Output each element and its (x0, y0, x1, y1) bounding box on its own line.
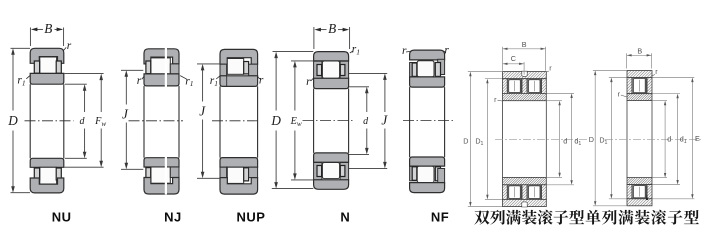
bearing NF top inner-ring flange left (410, 63, 417, 77)
bearing NF top roller (417, 61, 434, 77)
bearing NU bore line right (63, 84, 65, 158)
bearing N bottom cage mark left (317, 166, 322, 177)
leader r (NU) (63, 47, 66, 50)
bearing SL-double top outer ring (503, 72, 547, 79)
bearing NF top cage bar right (435, 63, 440, 77)
dimension d line (SL-single) (664, 104, 666, 175)
bearing N top outer ring (314, 52, 349, 61)
dimension D extension top (NU) (11, 47, 31, 49)
leader r left (SL-single) (621, 95, 627, 97)
bearing NJ bottom roller (151, 167, 170, 183)
bearing NF bottom inner ring (410, 157, 445, 166)
bearing NU bottom cage bar left (34, 168, 39, 180)
bearing NJ bottom cage bar left (146, 168, 151, 180)
bearing N bore line right (348, 89, 350, 153)
leader r (NJ) (142, 76, 145, 79)
dimension C line (SL-double) (503, 63, 525, 65)
dimension D line (N) (275, 56, 277, 110)
caption double-row full-complement roller type (Chinese) (474, 210, 489, 224)
oil groove notch top (SL-double) (522, 71, 527, 76)
bearing N bore line left (313, 89, 315, 153)
bearing SL-double bottom roller 2 pocket (527, 185, 542, 200)
dimension B line with arrows (NU) (37, 28, 44, 30)
bearing NJ top roller (151, 58, 170, 74)
bearing SL-double top roller 2 pocket (527, 79, 542, 94)
bearing SL-double bottom roller 1 roller (509, 186, 521, 199)
bearing SL-double bottom roller 2 roller axis line (533, 187, 535, 197)
svg-text:N: N (340, 210, 350, 225)
bearing NF bottom outer-ring flange right (438, 169, 445, 184)
dimension J extension bottom (NJ) (121, 168, 143, 170)
leader r1 (NUP) (216, 76, 219, 79)
bearing NJ top inner ring (144, 74, 179, 86)
bearing NJ top inner-ring flange right (170, 64, 179, 74)
bearing N bottom cage mark right (340, 166, 345, 177)
dimension d1 extensions (SL-single) (653, 93, 680, 95)
bearing SL-double top roller 1 roller (509, 80, 521, 93)
bearing SL-single top inner ring (627, 94, 652, 101)
bearing NF top outer ring (410, 50, 445, 60)
bearing NF bottom cage bar right (435, 167, 440, 181)
bearing NUP bottom roller (227, 167, 243, 183)
bearing SL-single bottom outer flange right (647, 185, 652, 199)
oil groove notch bottom (SL-double) (522, 202, 527, 207)
svg-text:r: r (137, 75, 142, 87)
dimension J line (NJ) (125, 75, 127, 105)
bearing NF top inner ring (410, 77, 445, 87)
bearing NUP top roller (227, 59, 243, 75)
svg-text:NJ: NJ (164, 210, 182, 225)
bearing SL-double top outer flange right (542, 79, 547, 94)
bearing SL-single top roller roller axis line (639, 80, 641, 92)
dimension D1 extensions (SL-double) (485, 78, 502, 80)
bearing SL-single bottom roller roller axis line (639, 187, 641, 197)
bearing N bottom inner-ring flange left (314, 163, 322, 180)
bearing NUP top cage bar right (244, 62, 249, 74)
svg-text:r: r (259, 75, 264, 87)
bearing N bottom roller (322, 163, 339, 179)
bearing SL-double bottom roller 2 shade bar (540, 186, 542, 199)
bearing N top inner ring (314, 78, 349, 88)
bearing NUP bottom loose rib left (220, 167, 227, 177)
leader r right (NF) (444, 51, 446, 52)
centre line (SL-double) (495, 138, 588, 140)
bearing SL-double top roller 1 roller axis line (514, 81, 516, 91)
bore line right (SL-double) (545, 101, 547, 178)
bearing NU bottom outer ring with flanges (30, 178, 64, 193)
loose rib seam (NUP top) (226, 64, 228, 86)
bearing NUP bore line left (219, 86, 221, 157)
svg-text:d: d (667, 135, 671, 144)
dimension B line with arrows (N) (320, 29, 327, 31)
bearing NU top cage bar left (34, 61, 39, 73)
dimension B extension lines (N) (313, 27, 315, 49)
dimension Fw extension bottom (NU) (65, 166, 104, 168)
dimension J extension top (NJ) (121, 69, 143, 71)
svg-text:r: r (306, 76, 311, 88)
dimension d extension top (NU) (65, 83, 87, 85)
bearing SL-single top outer flange left (627, 78, 632, 94)
bearing SL-single bottom roller shade bar (645, 185, 647, 198)
leader r (N) (311, 78, 314, 81)
leader r left (NF) (406, 50, 410, 53)
dimension E line (SL-single) (691, 81, 693, 196)
bore line right (SL-single) (651, 101, 653, 178)
bearing NUP bottom cage bar right (244, 168, 249, 181)
bearing N top inner-ring flange left (314, 61, 322, 78)
bearing NJ top cage bar left (146, 61, 151, 74)
bearing SL-double bottom centre rib (522, 185, 527, 200)
bearing SL-double top roller 1 shade bar (520, 79, 522, 93)
bearing N bottom inner ring (314, 153, 349, 162)
leader r right (SL-double) (547, 71, 549, 72)
svg-text:C: C (511, 54, 516, 63)
svg-text:D: D (463, 136, 468, 145)
dimension B line (SL-double) (503, 48, 546, 50)
dimension d line (NU) (84, 89, 86, 112)
dimension J extension bottom (NUP) (197, 177, 219, 179)
bearing NF bottom roller (417, 166, 434, 182)
bearing SL-double bottom roller 2 roller (529, 186, 541, 199)
dimension D extensions (SL-single) (593, 70, 627, 72)
leader r1 (NJ) (180, 76, 187, 80)
dimension B extension lines (SL-single) (626, 53, 628, 68)
bearing NF bottom inner-ring flange left (410, 166, 417, 180)
dimension Ew extension bottom (N) (291, 179, 313, 181)
svg-text:NUP: NUP (237, 210, 266, 225)
bearing SL-double top roller 2 shade bar (540, 79, 542, 93)
dimension Ew extension top (N) (291, 60, 313, 62)
centre line (SL-single) (605, 138, 702, 140)
dimension J extension top (NUP) (197, 63, 219, 65)
bearing NF top outer-ring flange right (438, 59, 445, 74)
dimension J line (NUP) (202, 69, 204, 102)
bearing SL-double top roller 2 roller axis line (533, 81, 535, 91)
dimension D1 extensions (SL-single) (609, 77, 627, 79)
dimension J line (N) (384, 78, 386, 112)
bearing NJ bore line left (143, 86, 145, 158)
bearing NU top cage bar right (56, 61, 61, 73)
bearing NUP bottom outer ring with flanges (220, 178, 258, 195)
bearing NJ bottom outer ring with flanges (144, 178, 179, 195)
leader r1 (N) (350, 51, 353, 53)
svg-text:B: B (522, 40, 527, 49)
dimension d extension bottom (NU) (65, 157, 87, 159)
bearing N top cage mark right (340, 65, 345, 76)
leader r left (SL-double) (498, 99, 503, 102)
svg-text:NF: NF (431, 210, 449, 225)
dimension B line (SL-single) (627, 54, 652, 56)
dimension D extensions (SL-double) (468, 71, 502, 73)
svg-text:r: r (67, 40, 72, 52)
centre line (NUP) (212, 120, 260, 122)
bearing SL-single bottom outer ring (627, 199, 652, 206)
bearing NF bore line right (444, 87, 446, 157)
bearing NU bore line left (29, 84, 31, 158)
bearing SL-double bottom roller 1 roller axis line (514, 187, 516, 197)
leader r (NUP) (257, 76, 259, 79)
bearing N top inner-ring flange right (340, 61, 349, 78)
dimension D1 line (SL-double) (486, 82, 488, 196)
dimension d extension top (N) (349, 86, 369, 88)
dimension J extension bottom (N) (349, 167, 387, 169)
bearing SL-double top centre rib (522, 79, 527, 94)
bearing SL-double bottom roller 1 shade bar (520, 186, 522, 199)
svg-text:r: r (402, 45, 407, 57)
bearing N bottom inner-ring flange right (340, 163, 349, 180)
dimension d extension bottom (N) (349, 153, 369, 155)
centre line (N) (303, 120, 354, 122)
dimension B extension lines (SL-double) (502, 47, 504, 71)
dimension Ew line (N) (294, 66, 296, 111)
caption single-row full-complement roller type (Chinese) (586, 210, 601, 225)
bearing SL-single top outer ring (627, 71, 652, 78)
bearing SL-double top outer flange left (503, 79, 508, 94)
bearing NU bottom cage bar right (56, 168, 61, 180)
bearing NU top inner ring (30, 73, 64, 84)
svg-text:NU: NU (52, 210, 72, 225)
bearing NU top outer ring with flanges (30, 48, 64, 63)
loose rib seam (NUP bottom) (226, 166, 228, 177)
bearing NF bottom outer ring (410, 183, 445, 193)
bearing NU top roller (40, 57, 57, 73)
dimension d extensions (SL-double) (547, 100, 562, 102)
svg-text:E: E (695, 134, 700, 143)
bearing SL-single top outer flange right (647, 78, 652, 94)
bearing NUP bore line right (257, 86, 259, 157)
dimension d line (SL-double) (559, 104, 561, 174)
svg-text:B: B (44, 21, 52, 36)
leader r right (SL-single) (652, 74, 655, 76)
bearing SL-single top roller pocket (632, 78, 647, 94)
svg-text:B: B (637, 46, 642, 55)
bearing NF bore line left (409, 87, 411, 157)
bearing NF bottom cage bar left (412, 167, 417, 181)
image seam (NJ) (165, 48, 167, 195)
dimension d line (N) (366, 91, 368, 112)
dimension d1 extensions (SL-double) (547, 92, 574, 94)
bore line left (SL-double) (502, 101, 504, 178)
bearing N top cage mark left (317, 65, 322, 76)
dimension B extension lines (NU) (29, 28, 31, 47)
centre line (NF) (403, 119, 455, 121)
svg-text:r: r (444, 45, 449, 57)
bearing SL-double top roller 2 roller (529, 80, 541, 93)
dimension d1 line (SL-double) (571, 97, 573, 182)
dimension D extension bottom (NU) (11, 192, 31, 194)
svg-text:D: D (270, 113, 281, 128)
bearing NUP bottom inner ring (220, 158, 258, 168)
centre line (NJ) (129, 120, 184, 122)
leader r1 (NU) (26, 75, 30, 79)
bearing SL-double bottom outer ring (503, 199, 547, 206)
dimension D extension top (N) (273, 51, 314, 53)
bearing NU bottom inner ring (30, 158, 64, 167)
dimension E extensions (SL-single) (653, 77, 695, 79)
bearing SL-double top inner ring (503, 93, 547, 100)
dimension D line (NU) (12, 53, 14, 111)
bearing SL-single bottom roller pocket (632, 185, 647, 199)
oil hole arrow (SL-single) (646, 194, 648, 200)
svg-text:D: D (589, 135, 594, 144)
bearing NUP top inner-ring flange right (249, 64, 258, 76)
dimension Fw line (NU) (100, 78, 102, 112)
svg-text:B: B (328, 21, 336, 36)
bearing SL-double bottom roller 1 pocket (507, 185, 522, 200)
bearing NF top cage bar left (412, 63, 417, 76)
dimension Fw extension top (NU) (65, 73, 104, 75)
dimension d extensions (SL-single) (653, 100, 667, 102)
bearing NU bottom roller (40, 167, 57, 184)
bearing NJ top outer ring with flanges (144, 49, 179, 64)
dimension C extension line (SL-double) (523, 62, 525, 75)
dimension D line (SL-double) (469, 75, 471, 204)
bearing NUP bottom inner-ring flange right (249, 167, 258, 177)
bore line left (SL-single) (626, 101, 628, 178)
bearing N top roller (322, 61, 339, 78)
bearing NJ bottom inner ring (144, 158, 179, 167)
dimension D line (SL-single) (594, 74, 596, 203)
bearing SL-double bottom outer flange right (542, 185, 547, 200)
dimension J extension top (N) (349, 72, 387, 74)
bearing NJ bore line right (178, 86, 180, 158)
dimension D1 line (SL-single) (610, 81, 612, 196)
bearing SL-double bottom outer flange left (503, 185, 508, 200)
svg-text:D: D (7, 113, 18, 128)
svg-text:d: d (563, 137, 567, 146)
bearing SL-double bottom inner ring (503, 177, 547, 184)
bearing SL-single top roller shade bar (645, 78, 647, 93)
centre line (NU) (25, 120, 74, 122)
bearing NUP top outer ring with flanges (220, 49, 258, 64)
bearing NJ bottom inner-ring flange right (170, 167, 179, 178)
bearing NUP top loose rib left (220, 64, 227, 76)
bearing SL-single bottom inner ring (627, 178, 652, 185)
bearing SL-single bottom outer flange left (627, 185, 632, 199)
dimension d1 line (SL-single) (677, 97, 679, 181)
bearing NUP top inner ring (220, 76, 258, 87)
bearing SL-single bottom roller roller (633, 186, 645, 198)
bearing SL-double top roller 1 pocket (507, 79, 522, 94)
bearing SL-single top roller roller (633, 79, 645, 93)
bearing N bottom outer ring (314, 180, 349, 190)
dimension D extension bottom (N) (272, 188, 314, 190)
